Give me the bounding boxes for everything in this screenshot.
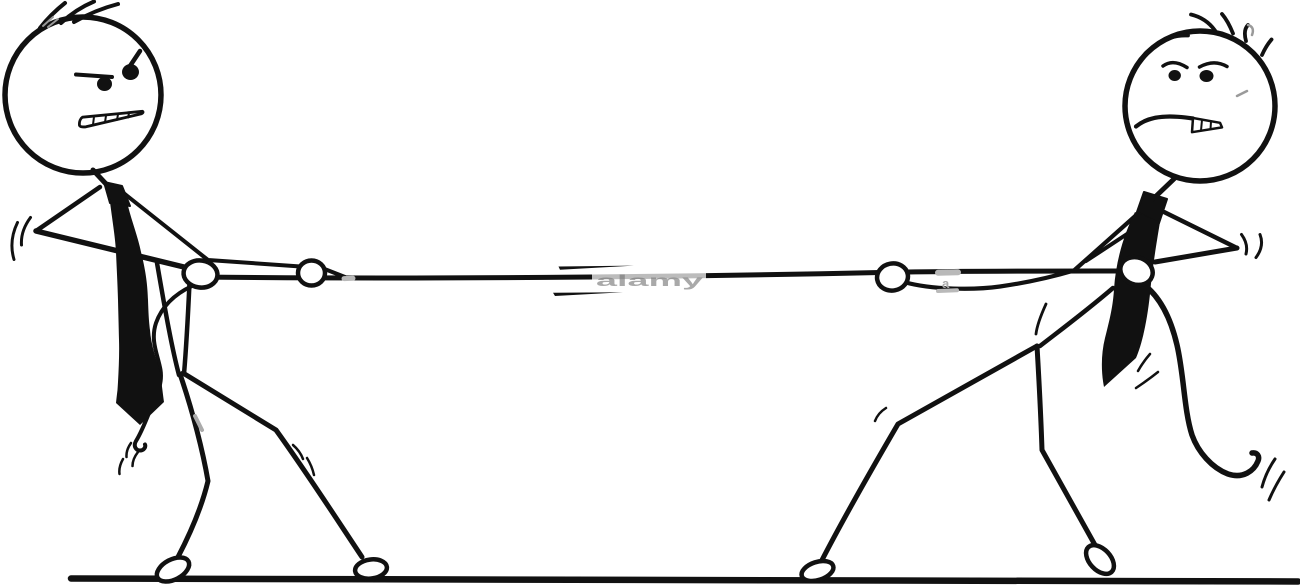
left man: dangling rope tail: [135, 286, 192, 451]
left man: front hand on rope: [298, 261, 325, 286]
left man: tie knot: [104, 182, 130, 206]
right man: neck: [1153, 177, 1176, 199]
left man: teeth dividers: [93, 113, 129, 124]
right man: mouth line: [1136, 116, 1193, 126]
left man: neck: [93, 170, 107, 185]
svg-text:alamy: alamy: [596, 273, 703, 290]
right man: torso crease: [1036, 304, 1046, 334]
left man: elbow motion arcs: [12, 218, 31, 260]
rope motion stroke lower center: [553, 292, 623, 296]
right man: left eye: [1169, 70, 1181, 81]
watermark: gray segment on rope near left hand2: [344, 276, 353, 281]
left man: straight eyebrow: [76, 75, 112, 78]
left man: head: [5, 17, 161, 173]
right man: right eye: [1200, 70, 1214, 82]
left man: torso back line: [157, 263, 179, 375]
left man: far upper arm (shoulder to pointed elbow): [36, 187, 100, 231]
right man: right eyebrow: [1200, 63, 1228, 67]
rope main span: [193, 271, 1124, 278]
ground line: [71, 579, 1298, 582]
left man: gray watermark strokes near hair: [43, 17, 58, 27]
right man: tie motion arcs: [1136, 354, 1158, 388]
left man: hair strokes: [40, 2, 118, 29]
left man: mouth with teeth: [79, 111, 143, 127]
right man: front foot: [799, 557, 836, 584]
left man: front foot: [354, 557, 388, 580]
right man: front knee motion arc: [875, 408, 886, 421]
rope motion stroke upper center: [559, 266, 635, 270]
left man: near arm over hands: [121, 191, 345, 277]
right man: back leg: [1037, 346, 1095, 545]
left man: angled eyebrow: [130, 51, 140, 66]
right man: tie: [1102, 212, 1160, 387]
left man: tie: [110, 202, 164, 425]
left man: back foot: [153, 552, 193, 585]
right man: gray watermark hair curl: [1248, 25, 1253, 35]
left man: torso front line: [184, 283, 190, 374]
left man: back leg: [178, 374, 208, 557]
right man: inner shoulder line: [1086, 217, 1153, 261]
right man: back foot: [1081, 540, 1120, 579]
left man: front knee motion strokes: [293, 445, 314, 475]
right man: teeth dividers: [1201, 120, 1211, 131]
left man: gray watermark dash on back leg: [195, 416, 202, 430]
watermark: center alamy: [592, 273, 706, 286]
left man: rope tail motion arcs: [119, 443, 138, 474]
left man: right eye: [122, 64, 139, 80]
right man: far forearm elbow to near hand: [1155, 248, 1237, 262]
right man: elbow motion arcs: [1242, 235, 1262, 258]
left man: front leg: [183, 373, 362, 557]
left man: rear hand on rope: [182, 258, 219, 289]
left man: left eye: [97, 77, 112, 91]
right man: dangling rope tail with curl: [1143, 284, 1259, 476]
right man: rope tail motion arcs: [1262, 459, 1284, 500]
right man: teeth: [1192, 118, 1222, 132]
svg-text:a: a: [942, 276, 950, 291]
right man: near arm sagging to far hand: [904, 210, 1142, 289]
right man: hair strokes: [1171, 14, 1272, 55]
right man: front leg: [821, 346, 1037, 562]
right man: far upper arm to pointed elbow: [1164, 212, 1237, 248]
right man: torso back line: [1040, 288, 1113, 346]
right man: near hand on rope: [1116, 253, 1156, 290]
right man: head: [1125, 31, 1275, 181]
right man: far hand on rope: [875, 261, 910, 293]
watermark: gray segment on sag arm: [938, 288, 957, 293]
right man: gray watermark dash on head edge: [1237, 91, 1247, 96]
right man: left eyebrow: [1163, 63, 1187, 68]
left man: far forearm (elbow to rear hand): [36, 231, 188, 268]
watermark: gray segment on rope right: [938, 269, 958, 275]
right man: tie knot: [1137, 192, 1167, 223]
